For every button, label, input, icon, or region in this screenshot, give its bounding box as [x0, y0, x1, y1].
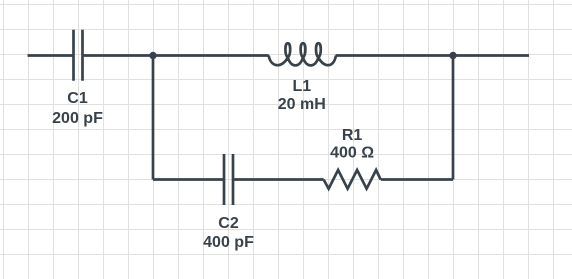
svg-text:400 Ω: 400 Ω — [330, 145, 374, 162]
svg-text:200 pF: 200 pF — [52, 110, 103, 127]
svg-text:C1: C1 — [67, 90, 88, 107]
svg-text:L1: L1 — [292, 78, 311, 95]
svg-text:400 pF: 400 pF — [203, 234, 254, 251]
svg-text:C2: C2 — [218, 215, 239, 232]
svg-text:20 mH: 20 mH — [278, 96, 326, 113]
svg-text:R1: R1 — [342, 127, 363, 144]
